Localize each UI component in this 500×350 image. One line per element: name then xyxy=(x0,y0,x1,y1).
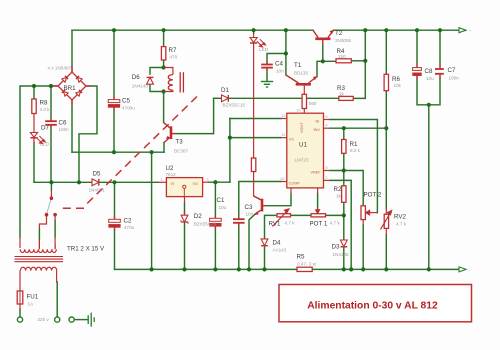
svg-text:T2: T2 xyxy=(335,30,343,37)
svg-text:1N4001: 1N4001 xyxy=(89,188,106,193)
svg-text:BD135: BD135 xyxy=(294,71,308,76)
svg-text:RV2: RV2 xyxy=(394,214,406,221)
svg-text:POT 2: POT 2 xyxy=(364,192,382,199)
svg-text:11: 11 xyxy=(282,133,286,137)
svg-text:VO: VO xyxy=(193,182,199,186)
svg-text:1N4148: 1N4148 xyxy=(132,84,149,89)
svg-text:1k: 1k xyxy=(336,193,342,198)
svg-text:T1: T1 xyxy=(294,62,302,69)
svg-text:POT 1: POT 1 xyxy=(310,221,328,228)
svg-text:560: 560 xyxy=(309,101,317,106)
svg-text:VI: VI xyxy=(171,182,175,186)
svg-text:4: 4 xyxy=(326,124,328,128)
svg-text:5: 5 xyxy=(326,166,328,170)
svg-text:C1: C1 xyxy=(217,197,225,204)
svg-text:D1: D1 xyxy=(221,87,229,94)
svg-text:6: 6 xyxy=(326,115,328,119)
svg-text:D6: D6 xyxy=(132,74,140,81)
svg-text:T3: T3 xyxy=(176,139,184,146)
svg-text:13: 13 xyxy=(280,177,284,181)
svg-text:8.2 k: 8.2 k xyxy=(350,148,361,153)
svg-text:3.3 k: 3.3 k xyxy=(40,107,51,112)
svg-text:BR1: BR1 xyxy=(64,85,77,92)
svg-text:220 v: 220 v xyxy=(38,317,50,322)
svg-text:AA143: AA143 xyxy=(273,248,287,253)
svg-text:10u: 10u xyxy=(426,76,434,81)
svg-text:R2: R2 xyxy=(334,186,342,193)
svg-text:1N4148: 1N4148 xyxy=(333,252,350,257)
svg-text:4.7 k: 4.7 k xyxy=(396,222,407,227)
svg-text:1A: 1A xyxy=(28,302,35,307)
svg-text:D4: D4 xyxy=(273,240,281,247)
svg-text:D3: D3 xyxy=(332,244,340,251)
svg-text:C8: C8 xyxy=(425,68,433,75)
svg-text:C5: C5 xyxy=(122,98,130,105)
svg-text:470u: 470u xyxy=(124,225,135,230)
svg-text:RV1: RV1 xyxy=(269,221,281,228)
svg-text:D7: D7 xyxy=(41,125,49,132)
svg-text:Alimentation 0-30 v AL 812: Alimentation 0-30 v AL 812 xyxy=(307,301,438,312)
svg-text:COMP: COMP xyxy=(289,182,301,186)
svg-text:1k: 1k xyxy=(339,92,345,97)
svg-text:150: 150 xyxy=(338,54,346,59)
svg-text:10k: 10k xyxy=(394,83,402,88)
svg-text:FU1: FU1 xyxy=(27,294,39,301)
svg-text:4.7 k: 4.7 k xyxy=(330,220,341,225)
svg-text:BZX55C15: BZX55C15 xyxy=(223,103,246,108)
svg-text:0.47- 3 w: 0.47- 3 w xyxy=(297,261,317,266)
svg-text:U1: U1 xyxy=(299,142,307,149)
svg-text:2: 2 xyxy=(326,176,328,180)
svg-text:4.7 k: 4.7 k xyxy=(285,220,296,225)
svg-text:BC307: BC307 xyxy=(174,149,188,154)
svg-text:U2: U2 xyxy=(166,165,174,172)
svg-text:INV: INV xyxy=(314,128,321,132)
svg-text:TR1 2 X 15 V: TR1 2 X 15 V xyxy=(67,246,105,253)
svg-text:470: 470 xyxy=(170,55,178,60)
svg-text:LM723: LM723 xyxy=(295,158,309,163)
svg-text:VC: VC xyxy=(289,138,295,142)
svg-text:10n: 10n xyxy=(276,69,284,74)
svg-text:100n: 100n xyxy=(59,127,70,132)
svg-text:R6: R6 xyxy=(392,76,400,83)
svg-text:BZX55C20: BZX55C20 xyxy=(194,221,217,226)
svg-text:4 x 1N5407: 4 x 1N5407 xyxy=(48,66,72,71)
svg-text:C6: C6 xyxy=(59,120,67,127)
svg-text:VREF: VREF xyxy=(311,171,322,175)
svg-text:2N3055: 2N3055 xyxy=(335,38,352,43)
svg-text:10: 10 xyxy=(297,109,301,113)
svg-text:D2: D2 xyxy=(194,213,202,220)
svg-text:C7: C7 xyxy=(448,67,456,74)
svg-text:VOUT: VOUT xyxy=(300,122,304,133)
svg-text:4700u: 4700u xyxy=(122,106,135,111)
svg-text:R8: R8 xyxy=(40,100,48,107)
svg-text:C2: C2 xyxy=(124,217,132,224)
svg-text:C3: C3 xyxy=(245,204,253,211)
svg-text:LED: LED xyxy=(259,47,269,52)
svg-text:12: 12 xyxy=(282,114,286,118)
svg-text:10u: 10u xyxy=(219,205,227,210)
svg-text:NI: NI xyxy=(316,120,320,124)
svg-text:3: 3 xyxy=(207,178,209,182)
svg-text:10n: 10n xyxy=(246,212,254,217)
svg-text:C4: C4 xyxy=(275,61,283,68)
svg-text:D5: D5 xyxy=(93,171,101,178)
svg-text:R7: R7 xyxy=(169,47,177,54)
svg-text:R5: R5 xyxy=(297,254,305,261)
svg-text:1: 1 xyxy=(161,178,163,182)
svg-text:R1: R1 xyxy=(350,141,358,148)
svg-text:+: + xyxy=(469,29,471,33)
svg-text:100n: 100n xyxy=(449,76,460,81)
svg-text:LED: LED xyxy=(40,142,50,147)
svg-text:7812: 7812 xyxy=(166,172,177,177)
